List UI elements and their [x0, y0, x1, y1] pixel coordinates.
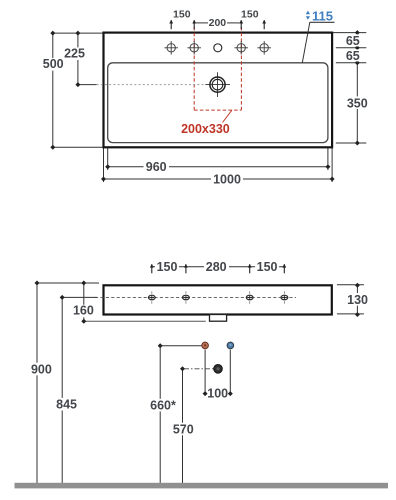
svg-text:150: 150	[173, 9, 191, 21]
svg-text:150: 150	[257, 260, 278, 274]
svg-text:115: 115	[312, 8, 333, 23]
svg-text:130: 130	[347, 293, 368, 307]
svg-text:100: 100	[207, 387, 228, 401]
svg-text:65: 65	[346, 49, 360, 63]
svg-text:200x330: 200x330	[181, 122, 230, 136]
svg-text:65: 65	[346, 34, 360, 48]
svg-text:900: 900	[31, 362, 52, 376]
svg-text:150: 150	[241, 9, 259, 21]
svg-text:500: 500	[43, 57, 64, 71]
svg-text:280: 280	[206, 260, 227, 274]
svg-text:1000: 1000	[213, 172, 241, 186]
svg-text:225: 225	[64, 47, 85, 61]
svg-text:200: 200	[209, 17, 227, 29]
svg-text:570: 570	[173, 422, 194, 436]
svg-text:845: 845	[56, 398, 77, 412]
svg-text:350: 350	[347, 96, 368, 110]
svg-text:150: 150	[157, 260, 178, 274]
svg-text:160: 160	[73, 304, 94, 318]
svg-text:960: 960	[146, 160, 167, 174]
svg-text:660*: 660*	[150, 399, 176, 413]
